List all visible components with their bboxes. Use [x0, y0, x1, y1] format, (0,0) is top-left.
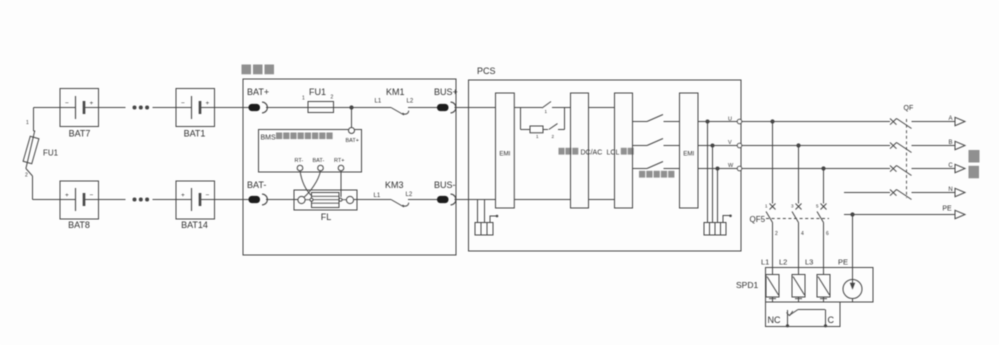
svg-text:L2: L2	[779, 258, 787, 267]
converter DC/AC four-quadrant	[571, 93, 589, 208]
svg-text:B: B	[948, 140, 952, 146]
svg-text:BAT-: BAT-	[313, 158, 325, 164]
ground hook DC block	[490, 216, 496, 223]
wire BUS- to PCS	[455, 199, 469, 201]
wire tap L1 down	[770, 119, 774, 123]
wire BMS sense drop	[351, 108, 353, 128]
svg-text:L1: L1	[374, 193, 381, 199]
wire phase A to arrow	[912, 121, 956, 123]
varistor module L1	[772, 268, 774, 275]
svg-text:LCL: LCL	[607, 149, 620, 156]
wire neutral N	[844, 192, 890, 194]
wire tap L3 down	[821, 166, 825, 170]
wire phase W out	[698, 168, 737, 170]
terminal block AC side	[704, 223, 726, 236]
wire RT+ to shunt	[340, 171, 342, 197]
contact NC-C	[787, 310, 789, 327]
wire KM3 to BUS-	[408, 199, 437, 201]
svg-text:RT+: RT+	[334, 158, 344, 164]
svg-text:L2: L2	[407, 99, 414, 105]
gas discharge arrester PE	[850, 283, 855, 290]
svg-text:DC/AC: DC/AC	[581, 149, 603, 156]
wire phase U LCL to EMI	[633, 121, 648, 123]
battery BAT14	[176, 181, 215, 219]
svg-text:1: 1	[26, 120, 29, 126]
terminal U	[737, 119, 742, 124]
svg-text:PE: PE	[942, 206, 952, 213]
svg-text:BUS+: BUS+	[434, 87, 458, 97]
terminal RT- on BMS	[297, 165, 303, 171]
svg-text:KM1: KM1	[386, 87, 405, 97]
varistor module L3	[823, 268, 825, 275]
contactor AC phase W	[647, 162, 663, 169]
battery BAT8	[60, 181, 99, 219]
svg-text:L3: L3	[805, 258, 813, 267]
node PE tap	[850, 212, 854, 216]
wire phase U out	[698, 121, 737, 123]
PCS box outline	[469, 80, 742, 251]
ellipsis dots top row	[133, 106, 137, 110]
wire FL to KM3	[354, 199, 391, 201]
svg-text:RT-: RT-	[295, 158, 304, 164]
svg-text:SPD1: SPD1	[736, 280, 758, 290]
svg-text:PE: PE	[838, 258, 848, 267]
svg-text:1: 1	[302, 96, 305, 102]
signal contact box	[766, 302, 841, 327]
terminal W	[737, 166, 742, 171]
terminal BAT- on BMS	[318, 165, 324, 171]
terminal RT+ on BMS	[338, 165, 344, 171]
svg-text:C: C	[828, 315, 835, 325]
wire phase W LCL to EMI	[633, 168, 648, 170]
wire DC positive rail	[469, 107, 543, 109]
node U tap	[706, 120, 710, 124]
wire drops to AC terminal block	[707, 122, 709, 223]
wire phase C to arrow	[912, 168, 956, 170]
wire BUS+ to PCS	[455, 107, 469, 109]
filter EMI output	[680, 93, 699, 208]
wire tap L2 down	[796, 143, 800, 147]
svg-text:QF5: QF5	[750, 215, 766, 224]
label combiner box (CJK)	[242, 65, 252, 75]
ellipsis dots bottom row	[133, 198, 137, 202]
svg-text:N: N	[948, 187, 952, 193]
shunt FL	[294, 190, 357, 210]
svg-text:FU1: FU1	[309, 87, 326, 97]
wire RT- to shunt	[300, 171, 312, 196]
terminal V	[737, 143, 742, 148]
combiner box outline	[243, 79, 456, 255]
svg-text:EMI: EMI	[683, 151, 694, 158]
fuse FU1 string fuse	[34, 130, 35, 132]
resistor precharge	[530, 126, 543, 133]
wire PE	[844, 214, 955, 216]
svg-text:+: +	[206, 100, 210, 107]
svg-text:FL: FL	[321, 212, 332, 222]
wire phase V LCL to EMI	[633, 145, 648, 147]
battery BAT1	[176, 89, 215, 127]
svg-text:BAT-: BAT-	[247, 180, 266, 190]
node W tap	[716, 167, 720, 171]
svg-text:BAT+: BAT+	[346, 138, 360, 144]
svg-text:QF: QF	[904, 105, 914, 112]
svg-text:NC: NC	[768, 315, 781, 325]
svg-text:BAT1: BAT1	[184, 129, 206, 139]
svg-text:−: −	[90, 192, 94, 199]
battery BAT7	[60, 89, 99, 127]
wire bottom battery row	[33, 199, 61, 201]
contactor AC phase U	[647, 115, 663, 122]
svg-text:BAT7: BAT7	[69, 129, 91, 139]
wire phase V out	[698, 145, 737, 147]
svg-text:2: 2	[331, 95, 334, 101]
svg-text:U: U	[728, 117, 732, 123]
svg-text:A: A	[948, 116, 952, 122]
filter EMI input	[496, 93, 515, 208]
wire precharge branch	[520, 108, 522, 130]
label grid connection (CJK)	[969, 150, 980, 163]
svg-text:KM3: KM3	[385, 180, 404, 190]
svg-text:+: +	[90, 100, 94, 107]
label four-quadrant DC/AC (CJK)	[559, 148, 565, 155]
BMS acquisition unit box	[259, 130, 362, 173]
svg-text:BAT+: BAT+	[247, 87, 269, 97]
terminal BAT+ on BMS	[349, 128, 355, 134]
wire top battery row	[34, 107, 61, 109]
svg-text:4: 4	[801, 231, 804, 237]
svg-text:FU1: FU1	[43, 149, 59, 158]
svg-text:+: +	[181, 192, 185, 199]
node V tap	[711, 144, 715, 148]
svg-text:−: −	[65, 100, 69, 107]
wire phase B to arrow	[912, 145, 956, 147]
svg-text:EMI: EMI	[499, 151, 510, 158]
svg-text:L2: L2	[406, 192, 413, 198]
svg-text:+: +	[65, 192, 69, 199]
linkage QF5 dashed	[766, 218, 829, 220]
label AC contactor (CJK)	[639, 171, 645, 178]
terminal block DC side	[475, 223, 493, 236]
svg-text:V: V	[728, 140, 732, 146]
wire DC negative rail	[469, 199, 571, 201]
svg-text:−: −	[181, 100, 185, 107]
wire BAT- row	[266, 199, 298, 201]
wire drops to DC terminal block	[477, 200, 479, 223]
svg-text:L1: L1	[761, 258, 769, 267]
svg-text:2: 2	[775, 231, 778, 237]
svg-text:BAT8: BAT8	[68, 220, 90, 230]
svg-text:BAT14: BAT14	[181, 220, 208, 230]
contactor main DC	[542, 102, 551, 109]
svg-text:L1: L1	[375, 99, 382, 105]
varistor module L2	[798, 268, 800, 275]
node junction to BMS	[349, 105, 353, 109]
wire BAT+ row	[266, 107, 391, 109]
svg-text:2: 2	[25, 173, 28, 179]
svg-text:PCS: PCS	[477, 66, 496, 76]
svg-text:C: C	[948, 163, 953, 169]
svg-text:6: 6	[826, 231, 829, 237]
contactor precharge	[549, 124, 558, 130]
wire PE down to arrester	[852, 215, 854, 284]
filter LCL	[615, 93, 633, 208]
ground hook AC block	[723, 216, 730, 223]
contactor AC phase V	[647, 139, 663, 146]
svg-text:BMS: BMS	[261, 135, 277, 142]
wire KM1 to BUS+	[408, 107, 437, 109]
svg-text:BUS-: BUS-	[434, 180, 456, 190]
linkage QF dashed	[906, 119, 908, 198]
svg-text:W: W	[728, 163, 734, 169]
surge protector SPD1 box	[766, 268, 874, 303]
svg-text:−: −	[206, 192, 210, 199]
wire BAT- sense to shunt	[304, 171, 321, 198]
wire left string link vertical	[33, 108, 35, 132]
